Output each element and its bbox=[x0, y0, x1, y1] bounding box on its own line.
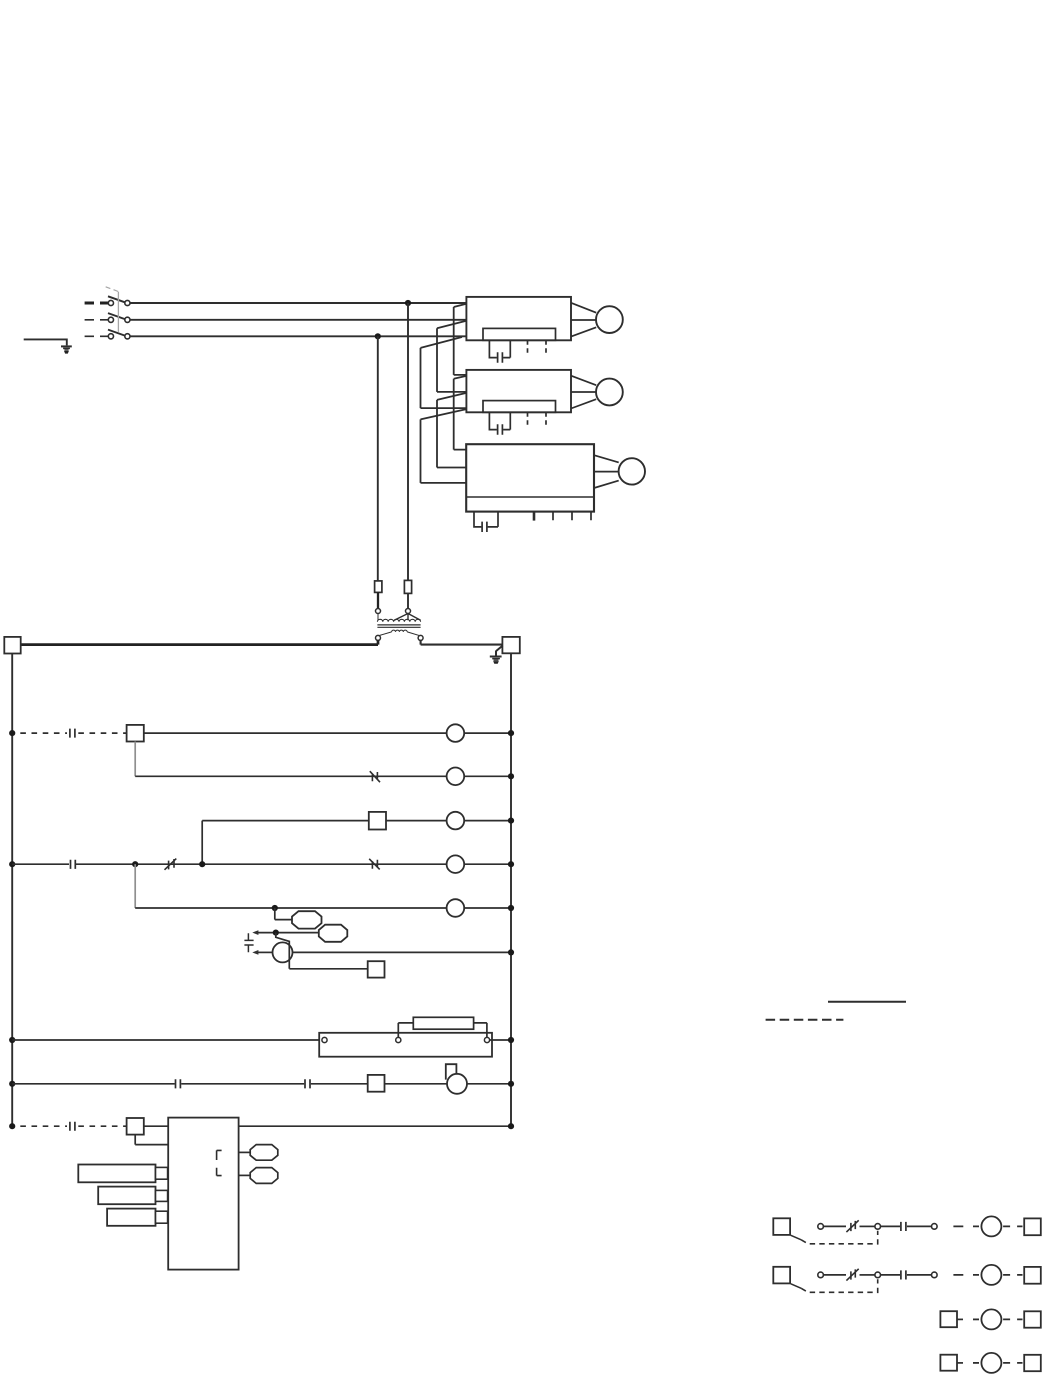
node rung8 left rail bbox=[9, 1037, 15, 1043]
coil C2 rung2 bbox=[447, 768, 465, 786]
wire rung8 bbox=[12, 1039, 322, 1041]
overload relay OL2 inside K2 bbox=[483, 401, 556, 413]
disconnect switch S1 pole 3 bbox=[85, 330, 130, 339]
motor M1 bbox=[596, 306, 623, 333]
contact NC rung2 bbox=[370, 771, 380, 782]
legend row 4 dash a bbox=[973, 1362, 979, 1364]
node rung1 left rail bbox=[9, 730, 15, 736]
wire left rail bbox=[11, 654, 13, 1127]
legend row 2 wire a-b bbox=[823, 1274, 846, 1276]
coil C3 rung3 bbox=[447, 812, 465, 830]
relay block CR1 rung1 bbox=[127, 725, 144, 742]
node rung10 right rail bbox=[508, 1123, 514, 1129]
overload heater contact under K1 bbox=[489, 340, 510, 362]
node transformer primary terminal P1 bbox=[376, 609, 381, 614]
wire rung9 bbox=[12, 1083, 368, 1085]
node HTR terminal 3 bbox=[484, 1037, 489, 1042]
node rung5 branch bbox=[272, 905, 278, 911]
node rung10 left rail bbox=[9, 1123, 15, 1129]
wire rung10 dashed section bbox=[20, 1125, 67, 1127]
wire feeder bus C continuation to compressor bbox=[421, 409, 467, 483]
node L1 tap (junction dot) bbox=[405, 300, 411, 306]
wire L1 drop to fuse F2 bbox=[407, 303, 409, 581]
contact NO rung10 bbox=[70, 1122, 75, 1131]
legend row 1 coil circle bbox=[981, 1216, 1001, 1236]
node rung8 right rail bbox=[508, 1037, 514, 1043]
wire rung4 bbox=[12, 863, 446, 865]
wire tap L3 to feeder bus C bbox=[421, 337, 467, 408]
contactor K2 (fan starter 2) bbox=[466, 370, 571, 412]
wire rung8 to right rail bbox=[490, 1039, 511, 1041]
legend row 2 wire b-c bbox=[881, 1274, 901, 1276]
heater assembly HTR rung8 bbox=[319, 1033, 492, 1057]
control board U1 bbox=[168, 1118, 238, 1270]
contactor K3 (compressor contactor) bbox=[466, 444, 594, 511]
legend row 1: pressure switch PSW1 bbox=[773, 1218, 790, 1235]
legend row 1 wire a-b bbox=[823, 1225, 846, 1227]
overload heater contact under K3 bbox=[474, 512, 498, 532]
wire secondary X1 to left terminal box bbox=[21, 640, 378, 644]
node transformer primary terminal P2 bbox=[406, 609, 411, 614]
terminal pins under K3 bbox=[533, 512, 536, 521]
contact NO rung4 left bbox=[71, 860, 76, 869]
legend row 2 terminal box bbox=[1024, 1267, 1041, 1284]
node rung4 left rail bbox=[9, 861, 15, 867]
wire terminal2 to resistor bbox=[398, 1023, 413, 1038]
legend row 1 contact NC bbox=[846, 1220, 858, 1232]
switch S1 handle (dashed) bbox=[104, 286, 118, 291]
wire rung6 to right rail bbox=[293, 951, 512, 953]
node rung6 right rail bbox=[508, 949, 514, 955]
transformer T1 primary winding bbox=[377, 619, 420, 622]
wire U1 to tag 4 bbox=[239, 1174, 251, 1176]
legend row 4 terminal box bbox=[1024, 1355, 1041, 1371]
node rung4 right rail bbox=[508, 861, 514, 867]
legend row 1 dash a bbox=[953, 1225, 979, 1227]
overload relay OL1 inside K1 bbox=[483, 328, 556, 340]
terminal box TB-R (ladder top right) bbox=[502, 637, 519, 653]
relay block CR3 rung10 bbox=[127, 1118, 144, 1135]
connector plug P1 bbox=[156, 1167, 168, 1179]
wire rung1 dashed field section bbox=[20, 732, 67, 734]
wire rung9 to right rail bbox=[467, 1083, 511, 1085]
legend row 3 dash a bbox=[973, 1318, 979, 1320]
ground GND2 at TB-R bbox=[490, 646, 503, 664]
tag label octagon 1 bbox=[292, 911, 322, 928]
disconnect switch S1 pole 2 bbox=[85, 313, 130, 322]
transformer T1 secondary leads bbox=[379, 632, 420, 636]
overload heater contact under K2 bbox=[489, 412, 510, 434]
wire phase L1 bbox=[130, 302, 467, 304]
timer motor TM (circle) rung6 bbox=[273, 942, 293, 962]
transformer T1 primary left lead bbox=[377, 614, 379, 621]
contact NO rung9 mid bbox=[305, 1079, 310, 1088]
wire rung10 from board to right rail bbox=[239, 1125, 511, 1127]
legend row 3 coil circle bbox=[981, 1309, 1001, 1329]
legend row 2 terminal c bbox=[932, 1272, 938, 1278]
node upper pressure line bbox=[273, 930, 279, 936]
switch S1 mechanical linkage bbox=[117, 292, 119, 332]
wire phase L3 bbox=[130, 335, 467, 337]
pin mark 2 inside U1 bbox=[217, 1168, 222, 1176]
wire rung5 bbox=[135, 907, 446, 909]
wire CR3 to control board bbox=[144, 1125, 168, 1127]
coil C4 rung4 bbox=[447, 855, 465, 873]
wire U1 to tag 3 bbox=[239, 1151, 251, 1153]
legend row 2 switch actuator diagonal bbox=[791, 1284, 801, 1289]
legend row 2 wire b bbox=[860, 1274, 875, 1276]
wire tap L2 to feeder bus B bbox=[437, 321, 466, 392]
tag label octagon 3 bbox=[250, 1145, 278, 1161]
legend row 1 dash b bbox=[1003, 1225, 1022, 1227]
terminal box TB-L (ladder top left) bbox=[4, 637, 20, 654]
legend sample: field wiring (solid) bbox=[828, 1001, 906, 1003]
legend row 1 wire b bbox=[860, 1225, 875, 1227]
legend row 1 switch actuator diagonal bbox=[791, 1235, 801, 1240]
contactor K1 (fan starter 1) bbox=[466, 297, 571, 340]
relay block CR2 rung3 bbox=[369, 812, 386, 830]
motor M3 (compressor) bbox=[619, 458, 645, 484]
legend row 3 terminal box bbox=[1024, 1311, 1041, 1327]
fuse F1 bbox=[375, 581, 382, 593]
node rung3 right rail bbox=[508, 818, 514, 824]
legend row 4 wire stub bbox=[957, 1362, 963, 1364]
dashed sensor leads under K1 bbox=[528, 340, 547, 356]
legend row 2 wire c bbox=[907, 1274, 932, 1276]
wire K3 to motor M3 leads bbox=[594, 455, 619, 488]
legend row 1 wire b-c bbox=[881, 1225, 901, 1227]
wire K2 to motor M2 leads bbox=[571, 376, 596, 409]
node rung4 branch A bbox=[132, 861, 138, 867]
wire rung1 bbox=[144, 732, 447, 734]
legend row 4 coil circle bbox=[981, 1353, 1001, 1373]
motor M2 bbox=[596, 379, 623, 406]
legend row 2 terminal b bbox=[875, 1272, 881, 1278]
node rung9 right rail bbox=[508, 1081, 514, 1087]
legend row 2: pressure switch PSW2 bbox=[773, 1267, 790, 1284]
node HTR terminal 2 bbox=[396, 1037, 401, 1042]
coil C1 (fan contactor coil) rung1 bbox=[447, 724, 465, 742]
wire feeder bus A continuation to compressor bbox=[454, 376, 467, 450]
legend row 2 dashed linkage bbox=[801, 1279, 878, 1292]
legend sample: factory wiring (dashed) bbox=[766, 1019, 844, 1021]
legend row 1 terminal box bbox=[1024, 1218, 1041, 1235]
terminal block TB3 rung9 bbox=[368, 1075, 385, 1092]
terminal strip line inside K3 bbox=[466, 496, 594, 498]
pressure switch PS1 lower contact arrow bbox=[252, 950, 258, 955]
contact NO rung9 left bbox=[176, 1079, 181, 1088]
resistor R1 above heater bbox=[413, 1017, 473, 1029]
legend row 2 dash b bbox=[1003, 1274, 1022, 1276]
dashed sensor leads under K2 bbox=[528, 412, 547, 428]
wire rung2 bbox=[135, 775, 446, 777]
connector plug P3 bbox=[156, 1211, 168, 1223]
legend row 1 contact NO bbox=[901, 1222, 906, 1231]
contact NO (field t-stat) rung1 bbox=[70, 729, 75, 738]
legend row 1 dashed linkage bbox=[801, 1231, 878, 1244]
wire feeder bus B continuation to compressor bbox=[437, 393, 466, 468]
wire resistor to terminal3 bbox=[474, 1023, 487, 1038]
contact NC (slash) rung4 mid bbox=[165, 859, 177, 870]
tag label octagon 2 bbox=[319, 925, 348, 942]
legend row 1 terminal a bbox=[818, 1224, 824, 1230]
terminal strip TS1 bbox=[78, 1165, 155, 1183]
fuse F2 bbox=[404, 580, 411, 593]
node L3 tap (junction dot) bbox=[375, 333, 381, 339]
wire rung4 to rung5 riser bbox=[134, 864, 136, 908]
wire rung1 to right rail bbox=[464, 732, 511, 734]
node rung5 right rail bbox=[508, 905, 514, 911]
wire rung5 branch to tag 1 bbox=[275, 908, 293, 920]
node HTR terminal 1 bbox=[322, 1037, 327, 1042]
terminal block TB2 rung7 bbox=[368, 961, 385, 977]
legend row 1 terminal b bbox=[875, 1224, 881, 1230]
legend row 3: device box bbox=[940, 1311, 957, 1327]
wire right rail bbox=[510, 653, 512, 1126]
crankcase heater CH (circle with cap) rung9 bbox=[447, 1074, 467, 1094]
transformer T1 core bbox=[377, 625, 420, 627]
node rung1 right rail bbox=[508, 730, 514, 736]
wire CR1 to rung2 bbox=[134, 742, 136, 777]
wire rung6 bbox=[258, 951, 273, 953]
legend row 3 dash b bbox=[1003, 1318, 1022, 1320]
terminal strip TS3 bbox=[107, 1209, 155, 1226]
wire rung3 bbox=[202, 820, 369, 822]
coil C5 rung5 bbox=[447, 899, 465, 917]
legend row 1 terminal c bbox=[932, 1224, 938, 1230]
disconnect switch S1 pole 1 bbox=[85, 296, 130, 305]
wire CR3 lower lead to control board bbox=[135, 1135, 168, 1145]
legend row 2 terminal a bbox=[818, 1272, 824, 1278]
transformer T1 secondary winding bbox=[392, 630, 408, 632]
wire rung3 riser from rung4 bbox=[201, 821, 203, 865]
pin mark 1 inside U1 bbox=[217, 1150, 222, 1160]
legend row 2 coil circle bbox=[981, 1265, 1001, 1285]
legend row 2 dash a bbox=[953, 1274, 979, 1276]
pressure switch PS1 bellows link bbox=[244, 933, 253, 952]
pressure switch PS1 upper contact arrow bbox=[252, 930, 258, 935]
node rung2 right rail bbox=[508, 773, 514, 779]
node secondary terminal X1 bbox=[376, 635, 381, 640]
legend row 1 wire c bbox=[907, 1225, 932, 1227]
legend row 2 contact NO bbox=[901, 1270, 906, 1279]
node rung4 branch B bbox=[199, 861, 205, 867]
ground GND1 (service earth, top-left) bbox=[24, 339, 72, 353]
legend row 4 dash b bbox=[1003, 1362, 1022, 1364]
tag label octagon 4 bbox=[250, 1168, 278, 1184]
legend row 2 contact NC bbox=[846, 1269, 858, 1281]
wire rung9 to compressor heater bbox=[385, 1083, 448, 1085]
transformer T1 primary tap fan bbox=[394, 614, 420, 621]
legend row 4: device box bbox=[940, 1355, 957, 1371]
wire K1 to motor M1 leads bbox=[571, 303, 596, 337]
connector plug P2 bbox=[156, 1190, 168, 1201]
wire phase L2 bbox=[130, 319, 467, 321]
wire secondary X2 to right terminal box bbox=[421, 640, 503, 644]
node rung9 left rail bbox=[9, 1081, 15, 1087]
contact NC rung4 right bbox=[369, 859, 380, 870]
legend row 3 wire stub bbox=[957, 1318, 963, 1320]
wire branch to heater block bbox=[276, 933, 368, 969]
terminal strip TS2 bbox=[98, 1187, 155, 1205]
node secondary terminal X2 bbox=[418, 635, 423, 640]
wire tap L1 to feeder bus A bbox=[454, 304, 467, 375]
wire L3 drop to fuse F1 bbox=[377, 336, 379, 581]
cap rect on CH bbox=[446, 1064, 457, 1079]
wire pressure line upper bbox=[258, 932, 320, 934]
